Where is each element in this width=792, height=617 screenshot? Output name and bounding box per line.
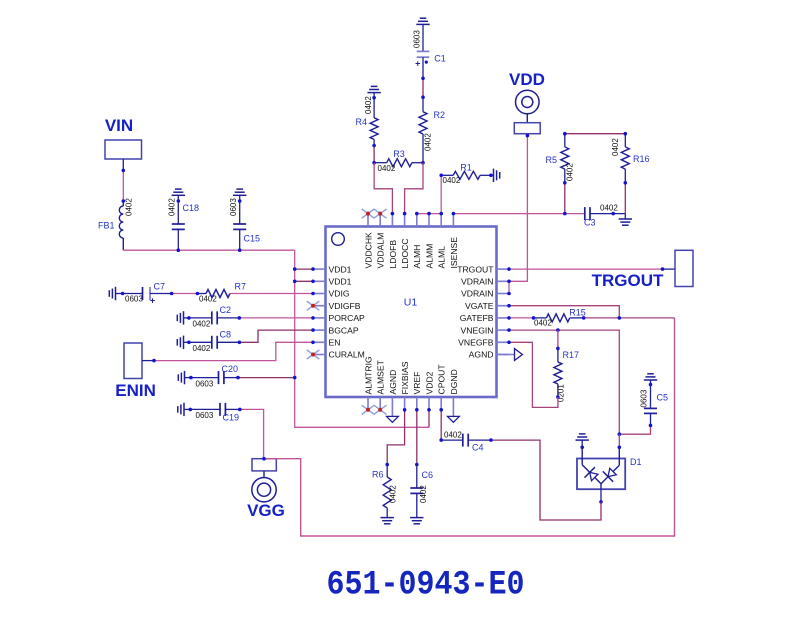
svg-text:VDDCHK: VDDCHK	[363, 232, 373, 269]
svg-text:U1: U1	[404, 297, 418, 309]
svg-text:VDDALM: VDDALM	[376, 233, 386, 269]
svg-text:0603: 0603	[413, 30, 422, 48]
svg-text:R7: R7	[235, 282, 247, 292]
svg-text:0402: 0402	[534, 319, 552, 328]
svg-text:EN: EN	[329, 338, 341, 348]
svg-text:0402: 0402	[389, 485, 398, 503]
svg-text:ALMH: ALMH	[412, 245, 422, 269]
svg-text:651-0943-E0: 651-0943-E0	[327, 565, 525, 604]
svg-text:VDD2: VDD2	[424, 371, 434, 394]
svg-text:D1: D1	[630, 457, 642, 467]
svg-text:CPOUT: CPOUT	[437, 364, 447, 395]
svg-text:PORCAP: PORCAP	[329, 313, 366, 323]
svg-text:C18: C18	[183, 203, 200, 213]
svg-text:C4: C4	[472, 443, 484, 453]
svg-text:VDRAIN: VDRAIN	[461, 289, 493, 299]
svg-text:C1: C1	[434, 54, 446, 64]
svg-text:C2: C2	[220, 305, 232, 315]
svg-text:0603: 0603	[640, 389, 649, 407]
svg-text:C5: C5	[657, 393, 669, 403]
svg-text:VNEGIN: VNEGIN	[461, 325, 494, 335]
svg-text:LDOCC: LDOCC	[400, 238, 410, 268]
svg-text:TRGOUT: TRGOUT	[592, 271, 664, 290]
svg-text:R2: R2	[434, 110, 446, 120]
svg-text:ALMTRIG: ALMTRIG	[363, 356, 373, 395]
svg-text:0402: 0402	[125, 198, 134, 216]
svg-text:C6: C6	[422, 470, 434, 480]
svg-text:0402: 0402	[444, 431, 462, 440]
svg-text:0402: 0402	[193, 344, 211, 353]
svg-text:R17: R17	[563, 350, 580, 360]
svg-text:FB1: FB1	[98, 221, 115, 231]
svg-text:R3: R3	[393, 149, 405, 159]
svg-text:R5: R5	[545, 155, 557, 165]
svg-text:0402: 0402	[424, 133, 433, 151]
svg-text:0603: 0603	[229, 198, 238, 216]
svg-text:0402: 0402	[364, 96, 373, 114]
svg-text:R15: R15	[569, 308, 586, 318]
svg-text:0402: 0402	[611, 138, 620, 156]
svg-text:0402: 0402	[443, 176, 461, 185]
svg-text:ALMM: ALMM	[424, 244, 434, 269]
svg-text:VNEGFB: VNEGFB	[458, 338, 494, 348]
svg-text:0402: 0402	[419, 485, 428, 503]
svg-text:+: +	[150, 295, 155, 305]
svg-text:C7: C7	[154, 282, 166, 292]
svg-text:ALML: ALML	[437, 246, 447, 269]
svg-text:C20: C20	[222, 364, 239, 374]
svg-text:VDD: VDD	[509, 70, 545, 89]
svg-text:AGND: AGND	[388, 370, 398, 395]
svg-text:AGND: AGND	[469, 350, 494, 360]
svg-text:0603: 0603	[196, 379, 214, 388]
svg-text:BGCAP: BGCAP	[329, 325, 359, 335]
svg-text:VREF: VREF	[412, 372, 422, 395]
svg-text:R4: R4	[355, 117, 367, 127]
svg-text:GATEFB: GATEFB	[460, 313, 494, 323]
svg-text:ISENSE: ISENSE	[449, 237, 459, 269]
svg-text:VGATE: VGATE	[465, 301, 494, 311]
svg-text:VDD1: VDD1	[329, 264, 352, 274]
svg-text:VDIGFB: VDIGFB	[329, 301, 361, 311]
svg-text:0603: 0603	[125, 295, 143, 304]
svg-text:R16: R16	[633, 154, 650, 164]
svg-text:0402: 0402	[193, 320, 211, 329]
svg-text:ALMSET: ALMSET	[376, 359, 386, 394]
svg-text:VDD1: VDD1	[329, 277, 352, 287]
svg-text:VDRAIN: VDRAIN	[461, 277, 493, 287]
svg-text:R1: R1	[460, 163, 472, 173]
svg-text:C3: C3	[584, 218, 596, 228]
svg-text:0402: 0402	[566, 163, 575, 181]
svg-text:FIXBIAS: FIXBIAS	[400, 361, 410, 394]
svg-text:C19: C19	[223, 412, 240, 422]
svg-text:VGG: VGG	[247, 501, 285, 520]
svg-text:VDIG: VDIG	[329, 289, 350, 299]
svg-text:TRGOUT: TRGOUT	[457, 264, 494, 274]
svg-text:C8: C8	[220, 329, 232, 339]
svg-text:+: +	[415, 59, 420, 69]
svg-text:0402: 0402	[168, 198, 177, 216]
svg-text:DGND: DGND	[449, 369, 459, 394]
svg-text:C15: C15	[244, 234, 261, 244]
svg-text:LDOFB: LDOFB	[388, 240, 398, 269]
svg-text:0402: 0402	[199, 295, 217, 304]
svg-text:ENIN: ENIN	[115, 381, 156, 400]
svg-text:VIN: VIN	[105, 116, 133, 135]
svg-text:0402: 0402	[378, 164, 396, 173]
svg-text:R6: R6	[372, 470, 384, 480]
svg-text:0603: 0603	[196, 411, 214, 420]
svg-text:CURALM: CURALM	[329, 350, 365, 360]
svg-text:0402: 0402	[600, 204, 618, 213]
